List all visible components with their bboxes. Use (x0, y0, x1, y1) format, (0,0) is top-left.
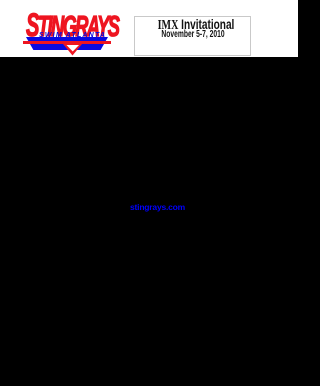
body blue link text (130, 202, 185, 212)
logo blue hexagon band (26, 37, 108, 50)
logo white inner triangle (66, 45, 80, 52)
white header band (0, 0, 298, 57)
logo STINGRAYS red text (26, 7, 108, 39)
title line 2 (142, 28, 244, 40)
logo red down arrow (63, 44, 82, 56)
title box (134, 16, 251, 56)
logo blue subtext (39, 32, 109, 41)
title line 1 (138, 16, 253, 34)
logo red stripe (23, 41, 111, 44)
